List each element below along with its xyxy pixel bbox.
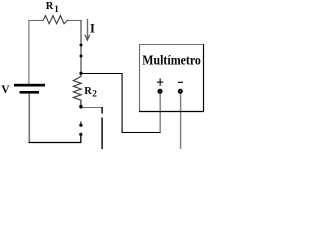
- svg-text:R: R: [84, 86, 92, 97]
- svg-text:Multímetro: Multímetro: [142, 52, 201, 68]
- svg-text:V: V: [1, 84, 10, 96]
- svg-text:I: I: [90, 22, 95, 36]
- svg-text:R: R: [46, 1, 54, 12]
- svg-text:2: 2: [92, 89, 97, 99]
- svg-text:1: 1: [54, 4, 59, 14]
